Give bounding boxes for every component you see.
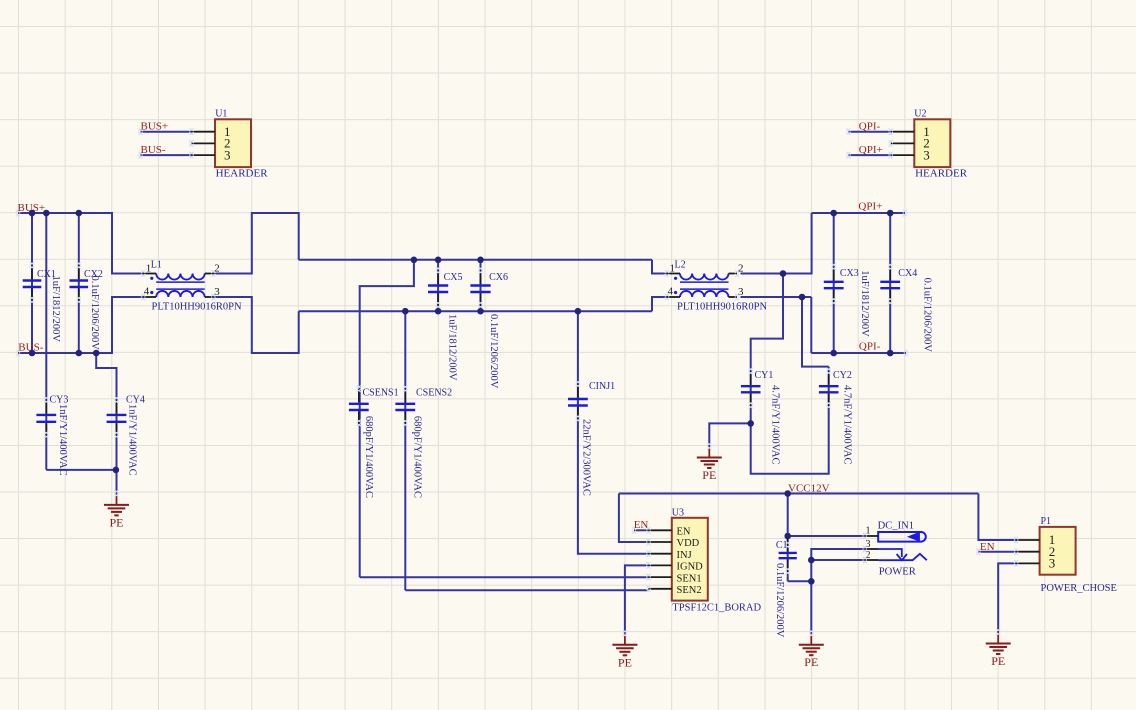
svg-text:HEARDER: HEARDER — [216, 168, 269, 180]
wire CX1 stem — [31, 213, 33, 353]
svg-text:CX3: CX3 — [840, 268, 859, 279]
pin stubs U1 — [189, 128, 215, 158]
wire SEN2 to U3 — [405, 589, 648, 591]
IC U3 (TPSF12C1_BORAD) — [672, 518, 708, 601]
svg-text:3: 3 — [224, 147, 231, 162]
ground PE2 (below CY1) (PE power port) — [697, 446, 722, 482]
wire DC_IN1 pin1 — [788, 535, 865, 537]
svg-text:4.7nF/Y1/400VAC: 4.7nF/Y1/400VAC — [769, 385, 780, 464]
svg-text:VCC12V: VCC12V — [788, 483, 830, 495]
svg-text:0.1uF/1206/200V: 0.1uF/1206/200V — [89, 276, 100, 351]
junction BUS-/CY4 — [93, 350, 100, 357]
junction railB/CX6 — [477, 308, 484, 315]
wire DC_IN1 pin2 — [811, 559, 864, 561]
svg-text:PLT10HH9016R0PN: PLT10HH9016R0PN — [677, 302, 767, 313]
svg-text:1nF/Y1/400VAC: 1nF/Y1/400VAC — [57, 404, 68, 476]
svg-text:CY1: CY1 — [755, 370, 774, 381]
svg-text:1uF/1812/200V: 1uF/1812/200V — [859, 270, 870, 337]
connector U2 (HEARDER) — [914, 119, 950, 167]
svg-text:1nF/Y1/400VAC: 1nF/Y1/400VAC — [126, 404, 137, 476]
wire CSENS1 jog to rail A — [360, 260, 414, 577]
junction C1/DC_IN1 pin1 — [784, 533, 791, 540]
svg-text:3: 3 — [214, 286, 220, 298]
junction BUS-/CX2 — [76, 350, 83, 357]
svg-text:4.7nF/Y1/400VAC: 4.7nF/Y1/400VAC — [841, 385, 852, 464]
capacitor CX4 — [880, 263, 900, 304]
svg-text:QPI+: QPI+ — [858, 201, 882, 213]
svg-text:EN: EN — [634, 519, 649, 531]
wire CY3 bottom link — [46, 469, 116, 471]
connector P1 (POWER_CHOSE) — [1040, 527, 1076, 575]
svg-text:CINJ1: CINJ1 — [589, 381, 615, 392]
svg-text:1uF/1812/200V: 1uF/1812/200V — [446, 314, 457, 381]
wire L1 pin3 to output step — [213, 297, 299, 353]
wire CINJ1 stem to INJ — [578, 311, 649, 554]
svg-text:PE: PE — [991, 654, 1005, 668]
pin numbers L1 — [144, 263, 221, 299]
svg-text:4: 4 — [668, 286, 674, 298]
wire BUS+ stub to U1 pin1 — [141, 131, 193, 133]
wire CX6 stem — [480, 260, 482, 311]
junction QPI-/CX4 — [887, 350, 894, 357]
svg-text:0.1uF/1206/200V: 0.1uF/1206/200V — [774, 563, 785, 638]
svg-text:CX4: CX4 — [898, 268, 917, 279]
junction CY3/CY4 — [113, 467, 120, 474]
wire BUS- tap to CY4 — [96, 353, 116, 470]
junction CY1/ground tap — [747, 420, 754, 427]
svg-text:1: 1 — [146, 263, 152, 275]
wire CY1 top link — [751, 274, 783, 424]
svg-text:CY2: CY2 — [833, 370, 852, 381]
wire QPI- rail — [811, 352, 906, 354]
junction C1 bottom — [808, 578, 815, 585]
wire QPI- stub to U2 pin1 — [849, 131, 891, 133]
wire CX2 stem — [78, 213, 80, 353]
capacitor CX3 — [824, 263, 844, 304]
pin stubs U2 — [889, 128, 915, 158]
junction L2 pin3/CY2 — [799, 294, 806, 301]
capacitor CSENS2 — [395, 385, 415, 426]
wire P1 pin3 to ground — [998, 563, 1017, 632]
wire QPI+ rail — [812, 212, 905, 214]
svg-text:QPI+: QPI+ — [859, 144, 883, 156]
pin numbers U1 — [224, 124, 231, 162]
svg-text:POWER_CHOSE: POWER_CHOSE — [1041, 583, 1117, 594]
svg-text:CX6: CX6 — [489, 272, 508, 283]
ground PE4 (below C1) (PE power port) — [799, 633, 824, 669]
svg-text:BUS+: BUS+ — [18, 202, 46, 214]
svg-text:4: 4 — [144, 286, 150, 298]
pin numbers DC_IN1 — [866, 526, 871, 561]
wire VCC12V rail — [619, 493, 979, 495]
wire BUS- stub to U1 pin3 — [141, 154, 193, 156]
svg-text:PE: PE — [109, 515, 123, 529]
svg-text:0.1uF/1206/200V: 0.1uF/1206/200V — [921, 278, 932, 353]
svg-text:BUS-: BUS- — [141, 144, 166, 156]
capacitor CY1 — [741, 368, 761, 409]
wire CY2 top link — [802, 297, 829, 367]
pin numbers L2 — [668, 263, 745, 299]
pin stubs DC_IN1 — [863, 533, 879, 564]
svg-text:680pF/Y1/400VAC: 680pF/Y1/400VAC — [412, 416, 423, 498]
svg-text:U2: U2 — [914, 109, 926, 120]
svg-text:22nF/Y2/300VAC: 22nF/Y2/300VAC — [581, 419, 592, 496]
svg-text:2: 2 — [738, 263, 744, 275]
wire L1 pin2 to output step — [213, 213, 299, 274]
pin numbers U2 — [923, 124, 930, 162]
wire rail B (lower mid rail) — [299, 310, 652, 312]
wire CX4 stem — [889, 213, 891, 353]
junction BUS+/CY3 — [43, 210, 50, 217]
svg-text:POWER: POWER — [879, 567, 917, 578]
wire EN stub at P1 — [978, 551, 1017, 553]
svg-text:EN: EN — [980, 541, 995, 553]
capacitor CX5 — [428, 267, 448, 308]
inductor L2 (common-mode choke) — [674, 274, 729, 298]
svg-text:680pF/Y1/400VAC: 680pF/Y1/400VAC — [363, 416, 374, 498]
capacitor CY2 — [819, 368, 839, 409]
svg-text:PE: PE — [804, 655, 818, 669]
svg-text:VDD: VDD — [677, 538, 700, 549]
svg-text:0.1uF/1206/200V: 0.1uF/1206/200V — [488, 314, 499, 389]
svg-text:C1: C1 — [776, 540, 788, 551]
pin stubs L1 — [141, 270, 215, 300]
wire BUS- from label to L1 pin4 — [18, 297, 144, 353]
junction railA/CX5 — [435, 257, 442, 264]
junction BUS+/CX1 — [29, 210, 36, 217]
wire CY1 ground tap — [709, 423, 750, 446]
wire C1 bottom link — [788, 580, 812, 582]
wire to ground under C1 — [810, 581, 812, 633]
capacitor CX1 — [23, 262, 42, 303]
junction railA/CX6 — [477, 257, 484, 264]
wire CX3 stem — [833, 213, 835, 353]
capacitor CX6 — [470, 267, 490, 308]
svg-text:PLT10HH9016R0PN: PLT10HH9016R0PN — [152, 302, 242, 313]
pin stubs U3 — [646, 527, 672, 592]
wire U3 IGND to ground — [625, 565, 649, 633]
wire end markers — [16, 128, 1001, 636]
capacitor CX2 — [70, 262, 89, 303]
wire CY3 stem — [45, 213, 47, 470]
wire QPI+ stub to U2 pin3 — [849, 154, 891, 156]
capacitor CY4 — [107, 397, 127, 439]
wire C1 stem — [787, 537, 789, 581]
wire SEN1 to U3 — [360, 576, 649, 578]
pin stubs L2 — [665, 270, 739, 300]
svg-text:BUS+: BUS+ — [141, 121, 169, 133]
inductor L1 (common-mode choke) — [150, 274, 205, 298]
ground PE1 (below CY3/CY4) (PE power port) — [104, 493, 129, 529]
junction DC_IN1 pin2 — [808, 557, 815, 564]
svg-text:L1: L1 — [151, 260, 162, 271]
junction QPI-/CX3 — [830, 350, 837, 357]
capacitor C1 — [779, 538, 797, 575]
ground PE5 (P1 pin3) (PE power port) — [986, 632, 1011, 668]
junction railB/CSENS2 — [402, 308, 409, 315]
wire EN stub at U3 — [634, 529, 649, 531]
svg-text:SEN1: SEN1 — [677, 573, 702, 584]
capacitor CY3 — [36, 397, 56, 439]
junction VCC12V — [784, 490, 791, 497]
junction BUS+/CX2 — [76, 210, 83, 217]
junction BUS-/CX1 — [29, 350, 36, 357]
svg-text:3: 3 — [1049, 556, 1056, 571]
junction railB/CX5 — [435, 308, 442, 315]
capacitor CINJ1 — [568, 381, 588, 422]
wire rail A (upper mid rail) — [299, 259, 652, 261]
svg-text:1: 1 — [670, 263, 676, 275]
svg-text:CX5: CX5 — [444, 272, 463, 283]
ground PE3 (U3 IGND) (PE power port) — [612, 633, 637, 669]
svg-text:DC_IN1: DC_IN1 — [878, 521, 915, 532]
svg-text:EN: EN — [677, 527, 691, 538]
svg-text:1uF/1812/200V: 1uF/1812/200V — [50, 276, 61, 343]
junction railB/CINJ1 — [575, 308, 582, 315]
junction QPI+/CX3 — [830, 210, 837, 217]
pin numbers P1 — [1049, 532, 1056, 570]
junction L2 pin2/CY1 — [780, 270, 787, 277]
svg-text:TPSF12C1_BORAD: TPSF12C1_BORAD — [672, 603, 761, 614]
svg-text:SEN2: SEN2 — [677, 585, 702, 596]
svg-text:U3: U3 — [672, 507, 684, 518]
wire L2 pin3 junction — [741, 296, 812, 298]
wire DC_IN1 pin3 — [811, 549, 864, 581]
pin names U3 — [677, 527, 704, 597]
wire VCC12V to U3 VDD — [619, 494, 649, 543]
wire BUS+ from label to L1 pin1 — [18, 213, 144, 274]
svg-text:CSENS2: CSENS2 — [416, 388, 452, 399]
svg-text:3: 3 — [923, 147, 930, 162]
connector U1 (HEARDER) — [215, 119, 251, 167]
wire CX5 stem — [437, 260, 439, 311]
junction QPI+/CX4 — [887, 210, 894, 217]
svg-text:U1: U1 — [215, 109, 227, 120]
wire VCC12V to P1 pin1 — [978, 494, 1017, 541]
svg-text:3: 3 — [738, 286, 744, 298]
svg-text:HEARDER: HEARDER — [915, 168, 968, 180]
wire rail A step down to L2 pin1 — [652, 260, 669, 274]
svg-text:PE: PE — [702, 468, 716, 482]
wire L2 pin2 to QPI+ rail — [741, 213, 812, 274]
svg-text:QPI-: QPI- — [859, 121, 881, 133]
wire CY4 to ground — [116, 470, 118, 494]
svg-text:INJ: INJ — [677, 550, 692, 561]
wire pin3 to QPI- rail — [810, 297, 812, 353]
svg-text:CSENS1: CSENS1 — [363, 388, 399, 399]
connector DC_IN1 (barrel jack) — [878, 532, 927, 560]
svg-text:L2: L2 — [675, 260, 686, 271]
svg-text:PE: PE — [618, 655, 632, 669]
wire VCC12V down to C1 and DC_IN1 pin1 — [787, 494, 789, 538]
capacitor CSENS1 — [349, 385, 369, 426]
svg-text:2: 2 — [214, 263, 220, 275]
pin stubs P1 — [1014, 537, 1040, 567]
svg-text:QPI-: QPI- — [859, 341, 881, 353]
svg-text:P1: P1 — [1041, 516, 1052, 527]
svg-text:BUS-: BUS- — [18, 342, 43, 354]
junction railA/CSENS1 — [411, 257, 418, 264]
wire rail B step up to L2 pin4 — [652, 297, 669, 311]
svg-text:IGND: IGND — [677, 562, 704, 573]
wire CSENS2 stem — [404, 311, 406, 590]
wire CY1-CY2 bottom link — [751, 367, 829, 474]
